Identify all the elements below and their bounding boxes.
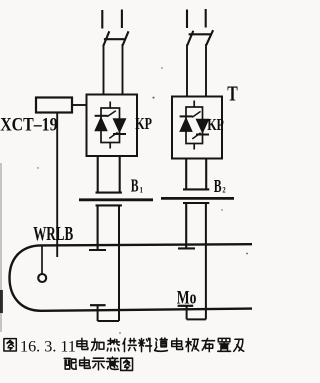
thyristor unit box U1 (87, 95, 138, 157)
busbar B1 (79, 198, 153, 201)
thermocouple WRLB: stem + tip circle (41, 246, 43, 274)
switch S2 (right two-pole disconnect) (187, 9, 213, 46)
svg-text:WRLB: WRLB (33, 222, 73, 244)
thyristor V2 (conducts down) (109, 119, 126, 139)
svg-text:KP: KP (207, 116, 224, 135)
svg-text:B: B (131, 176, 139, 196)
thyristor V1 (conducts up) (95, 111, 116, 131)
wire: switch S2 to unit U2 (187, 44, 206, 98)
svg-text:KP: KP (135, 115, 152, 134)
caption line 2: 配电示意图 (64, 358, 76, 369)
svg-text:XCT–19: XCT–19 (0, 113, 58, 135)
bottom electrode feed wire (left) (98, 205, 119, 321)
bottom electrode feed wire (right) (187, 203, 206, 319)
wire: U2 secondary drop with end cap (183, 159, 209, 190)
svg-text:2: 2 (222, 185, 226, 195)
tank: forehearth channel outline (10, 244, 253, 311)
top electrode (right): feed + tip bar (178, 203, 195, 248)
scan speckles (37, 67, 248, 334)
wire: switch S1 to unit U1 (104, 44, 123, 95)
svg-text:B: B (214, 177, 222, 197)
svg-text:Mo: Mo (177, 286, 197, 308)
wire: XCT-19 to U1 (72, 104, 87, 106)
wire: XCT-19 down to thermocouple area (56, 113, 58, 257)
electrode hanger cap (left phase) (96, 204, 122, 206)
thyristor unit box U2 (172, 97, 222, 159)
busbar B2 (161, 197, 234, 200)
bottom electrode tip bar (left) (90, 304, 106, 306)
thyristor V3 (conducts up) (180, 111, 201, 131)
caption line 1: 图 16.3.11 电加热供料道电极布置及 (4, 339, 16, 351)
electrode hanger cap (right phase) (183, 202, 209, 204)
U2 inner bridge box (186, 101, 203, 150)
bottom electrode tip bar (right, Mo) (178, 305, 194, 307)
svg-text:T: T (227, 82, 237, 105)
wire: U1 secondary drop with end cap (96, 156, 122, 193)
page-edge artifact (0, 163, 2, 332)
switch S1 (left two-pole disconnect) (102, 10, 128, 47)
thyristor V4 (conducts down) (192, 119, 209, 139)
svg-text:16. 3. 11: 16. 3. 11 (20, 338, 76, 355)
U1 inner bridge box (101, 102, 120, 149)
controller box XCT-19 (36, 98, 72, 113)
svg-text:1: 1 (140, 185, 144, 195)
top electrode (left): feed + tip bar (89, 205, 106, 250)
